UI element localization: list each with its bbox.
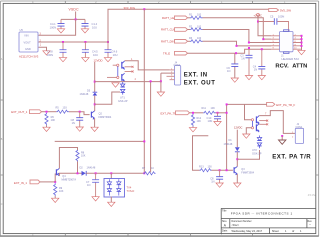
header J1 HEADER 5X2 [280,30,300,61]
U2 package diode element [257,136,261,149]
junction R8 bottom [77,172,79,174]
svg-text:1N: 1N [72,121,75,125]
nc mark pin2 [132,66,134,68]
svg-text:EXT_PA_TR: EXT_PA_TR [161,112,177,116]
wire D2 to TVS row [86,172,143,174]
nc mark pin3 [132,71,134,73]
junction R6 tap [46,111,48,113]
transistor Q1 MMBT2907A [56,168,76,181]
junction CLK bend [248,42,250,44]
wire header right common [301,36,303,50]
port EXT_PA_TR_F [267,102,296,107]
wire TVS to ground [110,197,112,203]
wire R3 to header pin 7 [203,41,272,46]
svg-text:1N: 1N [241,57,244,61]
ground C1.4 [81,29,88,33]
resistor R11 10K [202,107,216,114]
svg-text:1N: 1N [211,180,214,184]
svg-text:EXT. OUT: EXT. OUT [184,81,216,87]
svg-text:RATT_CLK: RATT_CLK [161,28,175,32]
capacitor C4 1N [253,49,265,75]
svg-text:RATT_DIN: RATT_DIN [161,40,174,44]
junction TVS tap [110,172,112,174]
resistor R6 10K (pulldown) [45,113,55,126]
ground C4.6 [104,58,111,62]
svg-text:A: A [316,57,318,61]
svg-text:CON2: CON2 [296,126,303,129]
wire EXT_IN_1 to base node [40,181,55,183]
wire collector branch to U2 lower element [237,150,259,159]
svg-text:U5: U5 [20,28,24,32]
wire RATT_CLK to R2 [188,29,191,31]
wire Q2 emitter to ground [94,118,96,127]
svg-text:TVS-D: TVS-D [127,189,135,193]
svg-text:3V3_DIG: 3V3_DIG [124,6,136,10]
junction TR_E riser [235,52,237,54]
ground C4.1 [57,29,64,33]
capacitor C4.8 [47,42,67,57]
U2 nc stub a [259,120,267,122]
svg-text:100N: 100N [47,53,53,57]
border zone ticks bottom [65,234,252,237]
junction C7 tap [95,172,97,174]
port RATT_DIN [161,40,188,44]
wire riser to Q3 base row [226,104,228,170]
svg-text:1N: 1N [254,68,257,72]
svg-text:1N: 1N [227,69,230,73]
transistor Q3 FMMT3904 [234,167,255,176]
junction 12VDD / pin4 wire [94,81,96,83]
resistor R9 10K (pulldown) [54,183,64,196]
svg-text:10U: 10U [92,25,97,29]
wire TR_E riser down to C6 [234,53,236,78]
svg-text:RCV.: RCV. [275,64,289,70]
ground U5 [43,51,50,55]
U1 nc stub pin3 [125,71,133,73]
resistor R5 103 [56,107,69,114]
svg-text:ATTN: ATTN [292,64,307,70]
wire U1 pin4 to long vertical B [95,82,161,173]
wire R13 to Q3 base [212,169,233,171]
ground C3 [245,76,252,80]
ground R12 [189,128,196,132]
junction top wire at long vertical [143,8,145,10]
ground Q2 [91,127,98,131]
svg-text:100: 100 [208,165,213,168]
wire R1 to header pin 3 [203,18,272,39]
svg-text:<Doc>: <Doc> [232,223,240,227]
junction C3 tap [248,47,250,49]
wire Q1 top to R8 loop [59,148,77,169]
svg-text:B: B [316,137,318,141]
wire R9 to ground [54,196,56,198]
ground C10 [214,122,221,126]
svg-text:U?1: U?1 [120,96,125,100]
wire CON2 ground stem [281,136,283,140]
ground C6 [231,78,238,82]
wire Q1 collector row [59,173,81,176]
junction port F branch [226,103,228,105]
svg-text:MMBT2907A: MMBT2907A [62,179,77,182]
svg-text:EXT. PA T/R: EXT. PA T/R [272,154,311,161]
transistor Q2 FMMT3904 [91,111,111,120]
wire U2 bases tie [252,121,254,127]
diode D1 1N4148 [224,130,240,153]
port RATT_CLK [161,28,188,32]
svg-text:10N: 10N [208,119,213,123]
wire VSDC down to VIN [39,19,76,35]
ground U1 base net [112,83,119,87]
svg-text:Size: Size [222,220,227,223]
capacitor C1.4 [82,19,98,29]
wire base B stub of U1 [107,76,117,78]
wire RATT_DIN to R3 [188,40,191,42]
svg-text:HEADER 5X2: HEADER 5X2 [282,57,300,61]
svg-text:10U: 10U [113,53,118,57]
connector CON2 [295,123,303,144]
ground C8a [76,127,83,131]
wire 3V3 rail from VOUT [39,41,109,43]
junction LE bend [262,38,264,40]
ground TVS [108,202,115,206]
resistor R7 10 [142,167,156,175]
junction C8b tap [219,169,221,171]
junction collector branch [236,158,238,160]
capacitor C8b 1N [210,170,223,183]
ground C8b [216,183,223,187]
svg-text:A: A [1,57,3,61]
junction DIN bend [236,45,238,47]
wire branch down to U2 base A [245,104,252,119]
wire VSDC horizontal to caps [61,18,85,20]
junction C10 tap [217,112,219,114]
resistor R2 100 [189,25,203,31]
border zone ticks right [316,100,319,175]
junction rail at C4.6 riser [107,41,109,43]
wire R8 to D2 row [77,162,79,174]
capacitor C7 1N [86,173,99,196]
svg-text:EXT_PA_TR_F: EXT_PA_TR_F [276,103,295,107]
svg-text:EXT_OUT_1: EXT_OUT_1 [11,110,27,114]
wire U1 pin1 to CON4 pin1 [125,61,170,70]
capacitor C10 10N [207,113,222,123]
port EXT_IN_1 [14,180,40,185]
resistor R13 100 [199,165,212,171]
svg-text:*: * [310,223,311,227]
junction CON4 ground node [160,80,162,82]
junction rail at C4.8 [62,41,64,43]
border zone ticks top [65,1,252,3]
wire VSDC vertical drop [75,12,77,20]
U2 nc stub b [259,123,267,125]
wire TR_E to header pin 9 [188,49,272,53]
port EXT_OUT_1 [11,110,41,114]
wire EXT_PA_TR to R11 [190,112,204,114]
ground CON2 [279,140,286,144]
header left pin numbers [273,34,275,49]
wire R5 to Q2 base [69,112,90,115]
junction 12VDD branch [94,103,96,105]
svg-text:C: C [1,202,3,206]
ground R6 [43,127,50,131]
svg-text:10K: 10K [81,155,86,158]
port RATT_LE [162,16,188,20]
svg-text:FMMT3904: FMMT3904 [99,116,112,119]
svg-text:CON4: CON4 [174,64,181,67]
port EXT_PA_TR [161,111,190,116]
wire horizontal branch to vertical A [55,140,145,142]
svg-text:12VDD: 12VDD [94,58,103,62]
svg-text:10K: 10K [197,120,202,123]
junction riser at EXT_PA_TR row [226,112,228,114]
svg-text:AZ1117CH-3V3: AZ1117CH-3V3 [19,55,39,59]
svg-text:12VDC: 12VDC [234,125,242,129]
U1 package diode element [121,82,125,95]
border zone ticks left [1,100,4,175]
TVS box U6 [104,173,134,197]
wire R6 to ground [46,125,48,127]
wire Q3 collector riser [236,153,238,167]
CON4 pin numbers [171,68,173,80]
junction base node [54,181,56,183]
wire branch right from 12VDD [95,92,120,104]
svg-text:R11: R11 [202,107,207,110]
junction long vertical A end [143,172,145,174]
wire CON4 pin2 from U1 pin4 node [161,73,175,81]
wire EXT_OUT_1 to R5 [42,111,57,113]
svg-text:Date:: Date: [222,230,228,233]
wire VCC down to pin1 [258,16,271,36]
capacitor C6 1N [227,64,239,73]
capacitor C5 100N (horizontal) [258,15,289,32]
svg-text:100N: 100N [50,25,56,29]
svg-text:FMMT3904: FMMT3904 [241,171,254,174]
ground U2 base B [243,134,250,138]
nc stub base A of U1 [113,64,117,66]
svg-text:U?2: U?2 [252,148,257,152]
wire base node up to Q1 base [55,174,56,182]
svg-text:4.5.17a: 4.5.17a [308,195,316,197]
ground header [298,50,305,54]
svg-text:5V5_SW: 5V5_SW [280,8,291,12]
wire U2 base B to ground [246,128,251,134]
junction C4 tap [261,48,263,50]
connector CON4 [174,62,181,85]
svg-text:Sheet: Sheet [272,229,279,233]
header left pin stubs [271,36,280,49]
junction VCC / C5 tap [257,21,259,23]
svg-text:100N: 100N [278,15,284,19]
wire GND pin of U5 [39,47,47,50]
wire U1 bases tie [117,66,119,76]
wire long vertical A (x144.3) [143,9,145,173]
svg-text:1N4148: 1N4148 [224,143,233,146]
wire R11 to riser [216,112,227,114]
svg-text:EXT. IN: EXT. IN [184,73,208,79]
header right pin stubs [293,36,302,49]
svg-text:100: 100 [197,37,202,40]
svg-text:10K: 10K [51,119,56,122]
ground R9 [52,198,59,202]
junctions header right column [301,35,303,47]
junction vertical A / branch [143,140,145,142]
svg-text:Q3: Q3 [241,168,245,171]
wire R2 to header pin 5 [203,30,272,43]
svg-text:B: B [1,137,3,141]
wire Q3 emitter to ground [236,174,238,183]
svg-text:TR_E: TR_E [163,51,170,55]
wire RATT_LE to R1 [188,17,191,19]
junction R12 tap [192,112,194,114]
capacitor C4.1 [50,19,65,29]
svg-text:RATT_LE: RATT_LE [162,16,174,20]
capacitor C3 1N [240,49,252,75]
power symbol VCC [254,13,263,17]
resistor R3 100 [189,37,203,43]
junction VSDC [75,18,77,20]
svg-text:1N4148: 1N4148 [87,167,96,170]
capacitor C4.5 [82,42,98,57]
svg-text:10K: 10K [211,107,216,110]
title block texts [222,210,313,233]
svg-text:GSK-2P: GSK-2P [252,152,262,156]
wire port F from riser junction [227,103,267,105]
wire 12VDD vertical [94,62,96,111]
junction CON2 ground tap [281,135,283,137]
transistor U1b (PNP with base bubble) [117,73,125,81]
svg-text:Wednesday, May 24, 2017: Wednesday, May 24, 2017 [232,229,263,233]
junction C8a tap [79,111,81,113]
transistor U1a (PNP with base bubble) [117,61,125,69]
regulator U5 AZ1117CH-3V3 [19,28,42,59]
ground C4.5 [82,58,89,62]
svg-text:100: 100 [197,14,202,17]
svg-text:C5: C5 [270,15,274,19]
svg-text:100: 100 [197,25,202,28]
ground Q3 [234,183,241,187]
port 5V5_SW (top right) [269,9,279,12]
capacitor C8a 1N [71,112,84,127]
diode D5 1N4148 (on 12VDD vertical) [80,90,98,96]
svg-text:of: of [292,229,294,233]
transistor U2a (with base bubble) [251,116,259,124]
svg-text:Title: Title [222,210,227,213]
wire 3V3_DIG riser and top run [108,9,269,42]
svg-text:EXT_IN_1: EXT_IN_1 [14,181,27,185]
svg-text:GSK-2P: GSK-2P [118,99,128,103]
ground C7 [92,197,99,201]
wire U2 pin to CON2 [259,111,295,134]
wire CON4 ground stem [160,81,162,92]
svg-text:1N: 1N [87,183,90,187]
port TR_E [163,51,188,55]
svg-text:103: 103 [63,107,68,110]
svg-text:Document Number: Document Number [232,220,252,223]
wire R12 to ground [192,126,194,129]
resistor R8 10K [76,150,86,162]
svg-text:FPGA SDR -- INTERCONNECTS 1: FPGA SDR -- INTERCONNECTS 1 [231,211,293,215]
ground C4.8 [59,58,66,62]
ground CON4 [157,92,164,96]
svg-text:VSDC: VSDC [69,8,80,12]
nc mark a [266,120,268,122]
svg-text:10K: 10K [59,190,64,193]
wire loop box [193,136,209,171]
svg-text:TV4: TV4 [127,185,132,189]
svg-text:R13: R13 [199,165,204,168]
U1 nc stub pin2 [125,66,133,68]
resistor R1 100 [189,14,203,20]
transistor U2b (with base bubble) [251,124,259,132]
title block frame [221,208,316,233]
resistor R12 10K (pulldown) [191,114,201,127]
svg-text:VOUT: VOUT [24,41,32,45]
nc mark b [266,123,268,125]
svg-text:1N4148: 1N4148 [80,93,89,96]
junction U1 pin4 / long vertical B [150,80,152,82]
diode D2 1N4148 [80,167,96,176]
capacitor C4.6 [105,42,118,57]
CON4 pin stubs [167,70,175,80]
svg-text:10U: 10U [93,53,98,57]
junction rail at C4.5 [84,41,86,43]
header right pin numbers [294,34,297,49]
junction riser/base row [226,169,228,171]
svg-text:GND: GND [25,47,31,51]
ground C4 [258,76,265,80]
svg-text:VIN: VIN [24,34,28,38]
